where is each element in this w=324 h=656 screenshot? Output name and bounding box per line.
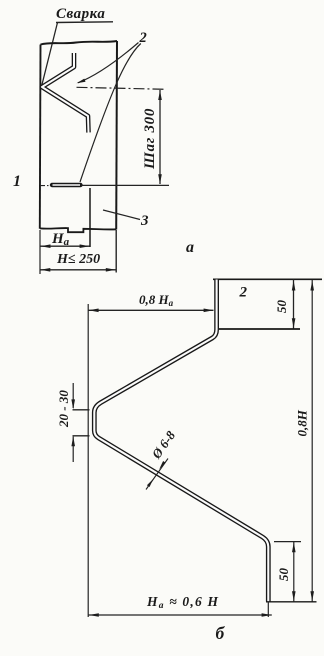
- leader from 2 to bottom bar: [80, 44, 141, 183]
- svg-text:2: 2: [139, 30, 147, 46]
- svg-text:Н≤ 250: Н≤ 250: [56, 252, 100, 267]
- svg-text:20 - 30: 20 - 30: [56, 390, 71, 428]
- Ø6-8 leader line: [146, 459, 168, 490]
- svg-text:а: а: [186, 239, 194, 256]
- bottom extension line: [266, 601, 317, 603]
- dimension Нa=0,6Н line: [89, 614, 272, 616]
- 20-30 extension ticks: [73, 409, 90, 411]
- arrow up: [158, 90, 162, 100]
- bent bar (double line): [94, 280, 268, 602]
- dimension Нa line: [40, 245, 90, 247]
- bottom right ticks: [274, 541, 301, 543]
- svg-text:50: 50: [276, 568, 291, 582]
- arrow down: [158, 174, 162, 184]
- svg-text:2: 2: [239, 285, 248, 301]
- weld leader line to joint: [42, 23, 58, 87]
- leader from 3: [103, 210, 140, 220]
- svg-text:б: б: [216, 623, 226, 643]
- weld point blob: [41, 85, 45, 89]
- svg-text:3: 3: [140, 213, 149, 229]
- left extension line: [87, 304, 89, 617]
- bar end extension to bottom dim: [267, 602, 269, 618]
- strip top edge (break line, wavy): [41, 41, 118, 45]
- flange plate 2: right edge: [293, 279, 295, 329]
- flange plate 2: bottom edge: [219, 328, 300, 330]
- leader from 2 to axis: [78, 43, 139, 83]
- leader arrowhead: [77, 79, 86, 84]
- dimension 0,8Нa line: [89, 309, 214, 311]
- weld callout underline: [56, 21, 113, 24]
- strip left edge: [39, 45, 42, 229]
- lattice bar 2 side view (zigzag, double line): [42, 53, 89, 133]
- left edge extension down: [39, 230, 41, 274]
- svg-text:1: 1: [13, 173, 21, 190]
- svg-text:Ø 6-8: Ø 6-8: [148, 428, 178, 462]
- svg-text:50: 50: [274, 300, 289, 314]
- svg-text:Сварка: Сварка: [56, 6, 105, 22]
- dimension 0,8Н line: [311, 280, 313, 602]
- svg-text:0,8Н: 0,8Н: [295, 409, 310, 436]
- strip bottom edge (break line with notch): [40, 228, 116, 232]
- inner vertical edge below bar: [89, 188, 91, 247]
- right edge extension down: [115, 230, 117, 273]
- bottom bar axis dash-dot left: [40, 185, 51, 187]
- svg-text:На ≈ 0,6 Н: На ≈ 0,6 Н: [146, 594, 219, 611]
- dimension Н<=250 line: [40, 269, 116, 271]
- svg-text:0,8 На: 0,8 На: [139, 292, 174, 308]
- dimension 50 bottom: [293, 542, 295, 602]
- svg-text:На: На: [51, 231, 70, 248]
- svg-text:Шаг 300: Шаг 300: [142, 108, 158, 170]
- lattice bar axis (dash-dot): [77, 87, 167, 89]
- bottom lattice bar (edge view, double line): [52, 183, 81, 187]
- top extension/edge line: [213, 278, 322, 280]
- strip right edge: [115, 41, 118, 230]
- dimension 50 (top right) arrows: [292, 281, 296, 291]
- bottom extension line to Шаг dimension: [82, 184, 170, 186]
- 20-30 arrow shafts: [72, 383, 74, 408]
- dimension Шаг 300 line: [159, 90, 161, 184]
